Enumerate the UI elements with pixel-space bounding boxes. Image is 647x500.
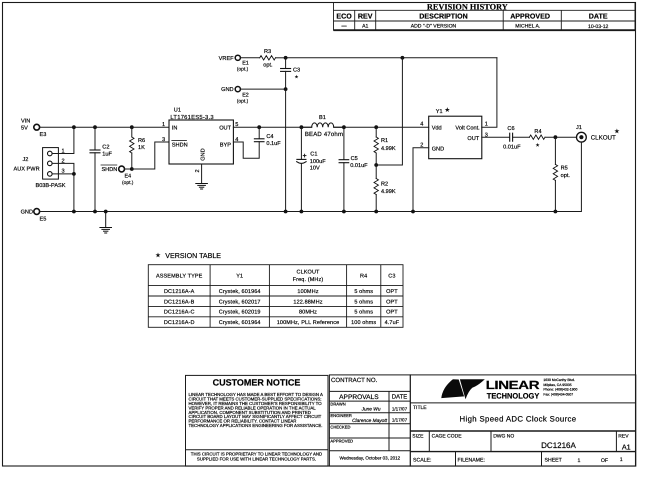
junction gnd C5 — [342, 210, 346, 214]
capacitor C2 — [90, 127, 113, 211]
svg-text:High Speed ADC Clock Source: High Speed ADC Clock Source — [460, 415, 577, 424]
svg-text:Wednesday, October 03, 2012: Wednesday, October 03, 2012 — [339, 456, 400, 461]
svg-text:REV: REV — [358, 12, 373, 20]
wire C6 to R4 — [513, 136, 530, 138]
svg-text:THIS CIRCUIT IS PROPRIETARY TO: THIS CIRCUIT IS PROPRIETARY TO LINEAR TE… — [191, 451, 322, 456]
svg-text:SIZE: SIZE — [412, 434, 424, 440]
svg-text:opt.: opt. — [561, 173, 571, 179]
scale row — [413, 457, 623, 464]
svg-text:Y1: Y1 — [236, 274, 243, 280]
svg-text:J2: J2 — [23, 157, 29, 163]
svg-text:0.01uF: 0.01uF — [503, 145, 521, 151]
svg-text:LT1761ES5-3.3: LT1761ES5-3.3 — [170, 114, 213, 121]
svg-text:SCALE:: SCALE: — [413, 458, 431, 464]
svg-text:R4: R4 — [360, 274, 367, 280]
wire R4 to J1 — [545, 136, 577, 138]
version table — [148, 252, 403, 327]
svg-text:Clarence Mayott: Clarence Mayott — [352, 418, 388, 424]
svg-text:Fax: (408)434-0507: Fax: (408)434-0507 — [543, 392, 573, 396]
junction R6 top — [130, 125, 134, 129]
svg-text:APPROVED: APPROVED — [330, 439, 353, 444]
wire Volt Cont net: top horizontal run — [286, 57, 497, 59]
svg-text:4: 4 — [420, 122, 423, 128]
svg-text:(opt.): (opt.) — [122, 180, 134, 186]
ground symbol U1 — [196, 184, 208, 190]
wire C3/E2 node down to ground rail — [285, 89, 287, 211]
wire J2 pin3 to ground rail — [52, 174, 74, 212]
wire VREF input to R3 — [241, 57, 260, 59]
resistor R5 — [553, 137, 570, 211]
svg-text:TECHNOLOGY APPLICATIONS ENGINE: TECHNOLOGY APPLICATIONS ENGINEERING FOR … — [189, 423, 323, 428]
svg-text:SUPPLIED FOR USE WITH LINEAR T: SUPPLIED FOR USE WITH LINEAR TECHNOLOGY … — [197, 457, 316, 462]
svg-text:DATE: DATE — [392, 394, 408, 401]
svg-text:1: 1 — [578, 458, 581, 464]
wire 3.3V rail U1 OUT to Y1 Vdd — [233, 126, 428, 128]
junction R5 top — [554, 135, 558, 139]
junction C3 top node — [284, 56, 288, 60]
svg-text:TITLE: TITLE — [413, 405, 427, 411]
star note on Y1 — [445, 107, 450, 112]
junction R1/R2 divider node — [374, 163, 378, 167]
svg-text:CONTRACT NO.: CONTRACT NO. — [331, 377, 378, 384]
svg-text:Crystek, 602017: Crystek, 602017 — [219, 299, 261, 305]
address — [543, 378, 577, 396]
resistor R2 — [374, 165, 396, 212]
svg-text:5 ohms: 5 ohms — [354, 289, 373, 295]
svg-text:R5: R5 — [561, 165, 568, 171]
svg-text:Crystek, 601964: Crystek, 601964 — [219, 289, 261, 295]
svg-text:C2: C2 — [102, 145, 109, 151]
svg-text:C6: C6 — [507, 126, 514, 132]
svg-text:REVISION HISTORY: REVISION HISTORY — [427, 2, 508, 11]
svg-text:DESCRIPTION: DESCRIPTION — [419, 12, 467, 20]
wire Y1 GND pin to ground rail — [413, 148, 429, 212]
svg-text:CLKOUT: CLKOUT — [296, 270, 320, 276]
svg-text:Freq. (MHz): Freq. (MHz) — [293, 277, 324, 283]
svg-text:R4: R4 — [534, 129, 541, 135]
svg-text:R3: R3 — [264, 49, 271, 55]
svg-text:5 ohms: 5 ohms — [354, 310, 373, 316]
junction J2 pin1 riser — [72, 125, 76, 129]
wire R3 to node C3 — [276, 57, 286, 59]
svg-text:—: — — [342, 23, 348, 29]
svg-text:VERSION TABLE: VERSION TABLE — [165, 252, 221, 260]
svg-text:4.99K: 4.99K — [381, 189, 396, 195]
size row — [412, 434, 629, 440]
connector J2 B03B-PASK — [14, 148, 66, 190]
svg-text:C5: C5 — [351, 156, 358, 162]
svg-text:0.1uF: 0.1uF — [266, 141, 281, 147]
svg-text:100MHz, PLL Reference: 100MHz, PLL Reference — [277, 320, 340, 326]
svg-text:MICHEL A.: MICHEL A. — [515, 24, 540, 30]
svg-text:1/17/07: 1/17/07 — [392, 407, 408, 412]
svg-text:E2: E2 — [242, 93, 249, 99]
svg-text:GND: GND — [200, 148, 206, 160]
svg-text:R1: R1 — [381, 138, 388, 144]
svg-text:3: 3 — [485, 133, 488, 139]
svg-text:ECO: ECO — [336, 12, 352, 20]
terminal E3 VIN — [21, 119, 46, 139]
svg-text:DC1216A-B: DC1216A-B — [164, 299, 195, 305]
svg-text:LINEAR: LINEAR — [486, 378, 541, 392]
star note on R4 — [536, 143, 540, 147]
wire divider node up to Volt Cont net — [376, 58, 402, 165]
svg-text:APPROVALS: APPROVALS — [339, 394, 379, 401]
svg-text:(opt.): (opt.) — [237, 66, 249, 72]
svg-text:R6: R6 — [138, 138, 145, 144]
svg-text:A1: A1 — [622, 443, 631, 452]
svg-text:1: 1 — [620, 457, 623, 463]
terminal E1 VREF — [219, 55, 249, 72]
svg-text:OUT: OUT — [219, 125, 231, 131]
svg-text:J1: J1 — [576, 125, 582, 131]
terminal E4 SHDN — [101, 165, 134, 186]
svg-text:Volt Cont.: Volt Cont. — [455, 125, 480, 132]
svg-text:BEAD 47ohm: BEAD 47ohm — [305, 131, 343, 138]
revision history table — [334, 2, 636, 30]
svg-text:1K: 1K — [138, 145, 145, 151]
svg-text:100uF: 100uF — [310, 159, 326, 165]
svg-text:Vdd: Vdd — [432, 125, 442, 132]
svg-text:1630 McCarthy Blvd.: 1630 McCarthy Blvd. — [543, 378, 575, 382]
svg-text:SHEET: SHEET — [545, 458, 563, 464]
svg-text:GND: GND — [432, 146, 444, 152]
svg-text:IN: IN — [172, 125, 178, 131]
svg-text:GND: GND — [21, 210, 33, 216]
svg-text:U1: U1 — [174, 108, 181, 114]
junction C4 top — [257, 125, 261, 129]
svg-text:Crystek, 601964: Crystek, 601964 — [219, 320, 261, 326]
capacitor C6 — [503, 126, 521, 151]
contract/approvals box — [329, 375, 410, 466]
svg-text:B03B-PASK: B03B-PASK — [35, 183, 65, 189]
resistor R3 — [260, 49, 276, 68]
capacitor C4 — [254, 127, 281, 147]
svg-text:VIN: VIN — [21, 119, 30, 125]
star note on CLKOUT — [614, 129, 619, 134]
svg-text:E1: E1 — [242, 60, 249, 66]
svg-text:CHECKED: CHECKED — [330, 424, 350, 429]
svg-text:OUT: OUT — [467, 136, 479, 142]
svg-text:5 ohms: 5 ohms — [354, 299, 373, 305]
junction gnd C1 — [300, 210, 304, 214]
LT logo mark — [441, 379, 485, 399]
junction E2 node — [284, 87, 288, 91]
junction gnd symbol stem — [104, 210, 108, 214]
wire J1 shield to ground rail — [555, 142, 581, 212]
svg-text:5V: 5V — [21, 126, 28, 132]
junction SHDN node — [130, 167, 134, 171]
junction gnd C3/E2 — [284, 210, 288, 214]
svg-text:R2: R2 — [381, 182, 388, 188]
svg-text:GND: GND — [221, 87, 233, 93]
svg-text:Crystek, 602019: Crystek, 602019 — [219, 310, 261, 316]
svg-text:DRAWN: DRAWN — [330, 402, 345, 407]
svg-text:OPT: OPT — [386, 310, 398, 316]
svg-text:E4: E4 — [125, 173, 132, 179]
wire E2 to C3 bottom node — [241, 88, 286, 90]
svg-text:4.7uF: 4.7uF — [385, 320, 400, 326]
svg-text:4.99K: 4.99K — [381, 146, 396, 152]
svg-text:80MHz: 80MHz — [299, 310, 317, 316]
junction R1 top — [374, 125, 378, 129]
svg-text:C1: C1 — [310, 152, 317, 158]
ground symbol rail — [100, 212, 112, 234]
junction J2 pin3 node — [72, 172, 76, 176]
svg-text:10V: 10V — [310, 165, 320, 171]
svg-text:APPROVED: APPROVED — [510, 12, 550, 20]
svg-text:C3: C3 — [293, 68, 300, 74]
svg-text:OPT: OPT — [386, 289, 398, 295]
svg-text:1: 1 — [485, 122, 488, 128]
svg-text:DATE: DATE — [589, 12, 608, 20]
svg-text:VREF: VREF — [219, 56, 235, 62]
junction B1 left / C1 — [300, 125, 304, 129]
wire C4 bottom to U1 BYP pin 4 — [233, 142, 259, 159]
junction C2 top — [93, 125, 97, 129]
resistor R6 — [130, 127, 146, 169]
svg-text:CUSTOMER NOTICE: CUSTOMER NOTICE — [213, 377, 301, 387]
svg-text:1uF: 1uF — [102, 151, 112, 157]
junction gnd J2 — [72, 210, 76, 214]
resistor R1 — [374, 127, 396, 165]
svg-text:A1: A1 — [362, 23, 368, 29]
junction B1 right / C5 — [342, 125, 346, 129]
svg-text:E3: E3 — [40, 132, 47, 138]
svg-text:opt.: opt. — [263, 63, 273, 69]
svg-text:Y1: Y1 — [436, 109, 443, 115]
svg-text:C4: C4 — [266, 134, 273, 140]
svg-text:B1: B1 — [319, 115, 326, 121]
wire VIN rail E3 to U1 IN — [40, 126, 169, 128]
svg-text:BYP: BYP — [220, 143, 231, 149]
wire J2 pin1 to VIN rail — [52, 127, 74, 153]
wire ground rail — [40, 211, 555, 213]
svg-text:E5: E5 — [40, 217, 47, 223]
svg-text:100MHz: 100MHz — [297, 289, 318, 295]
svg-text:DC1216A: DC1216A — [541, 441, 576, 450]
wire E4 to R6 bottom node — [125, 168, 132, 170]
svg-text:Phone: (408)432-1900: Phone: (408)432-1900 — [543, 388, 577, 392]
customer notice box — [186, 375, 329, 466]
svg-text:10-03-12: 10-03-12 — [588, 24, 609, 30]
svg-text:FILENAME:: FILENAME: — [458, 458, 485, 464]
star note on C3 — [295, 75, 299, 79]
svg-text:SHDN: SHDN — [101, 167, 117, 173]
junction divider riser node — [401, 56, 405, 60]
capacitor C3 — [281, 58, 301, 89]
wire U1 pin2 to ground — [201, 164, 203, 183]
svg-text:DWG NO: DWG NO — [493, 434, 514, 440]
capacitor C5 — [339, 127, 368, 211]
svg-text:SHDN: SHDN — [172, 143, 188, 149]
svg-text:ENGINEER: ENGINEER — [330, 413, 351, 418]
svg-text:122.88MHz: 122.88MHz — [293, 299, 322, 305]
wire Volt Cont vertical drop to Y1 pin 1 — [482, 58, 497, 127]
svg-text:DC1216A-A: DC1216A-A — [164, 289, 195, 295]
junction gnd C2 — [93, 210, 97, 214]
svg-text:Milpitas, CA 95035: Milpitas, CA 95035 — [543, 383, 571, 387]
svg-text:CLKOUT: CLKOUT — [591, 134, 616, 141]
svg-text:TECHNOLOGY: TECHNOLOGY — [487, 391, 540, 400]
oscillator Y1 — [429, 109, 482, 159]
svg-text:100 ohms: 100 ohms — [351, 320, 376, 326]
svg-text:3: 3 — [162, 137, 165, 143]
svg-text:DC1216A-D: DC1216A-D — [164, 320, 195, 326]
svg-text:DC1216A-C: DC1216A-C — [164, 310, 195, 316]
svg-text:OPT: OPT — [386, 299, 398, 305]
terminal E2 GND — [221, 87, 249, 105]
junction gnd Y1 — [411, 210, 415, 214]
wire SHDN node to U1 pin 3 — [132, 142, 169, 169]
svg-text:ASSEMBLY TYPE: ASSEMBLY TYPE — [156, 274, 203, 280]
svg-text:2: 2 — [195, 169, 201, 172]
svg-text:C3: C3 — [388, 274, 395, 280]
svg-text:0.01uF: 0.01uF — [350, 163, 368, 169]
svg-text:REV: REV — [618, 434, 629, 440]
connector J1 CLKOUT — [576, 125, 616, 142]
junction R5 bottom — [554, 210, 558, 214]
inductor B1 BEAD — [301, 115, 344, 138]
title block — [186, 375, 636, 466]
svg-text:1: 1 — [162, 122, 165, 128]
svg-text:AUX PWR: AUX PWR — [14, 166, 40, 172]
wire Y1 OUT to C6 — [482, 136, 510, 138]
wire J2 pin2 down to pin3 node — [52, 163, 74, 174]
capacitor C1 polarized — [297, 127, 327, 211]
op-amp U1 LT1761ES5-3.3 — [169, 108, 233, 164]
svg-text:(opt.): (opt.) — [237, 99, 249, 105]
svg-text:ADD "-D" VERSION: ADD "-D" VERSION — [411, 24, 457, 30]
logo/title/size box — [410, 375, 636, 466]
svg-text:CAGE CODE: CAGE CODE — [432, 434, 463, 440]
resistor R4 — [529, 129, 545, 140]
svg-text:June Wu: June Wu — [361, 407, 381, 413]
junction gnd R2 — [374, 210, 378, 214]
svg-text:1/17/07: 1/17/07 — [392, 418, 408, 423]
terminal E5 GND — [21, 209, 47, 223]
svg-text:OF: OF — [601, 458, 608, 464]
